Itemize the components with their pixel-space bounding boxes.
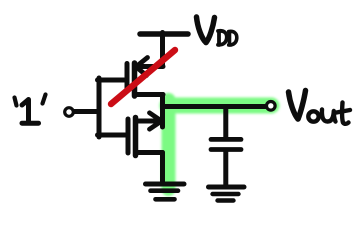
wire gate trunk [97,78,102,137]
crossed-out PMOS red slash [111,50,175,104]
wire source column to ground [160,153,165,183]
wire NMOS drain lead [136,119,157,124]
VDD rail bar [140,31,188,37]
wire VDD stem [160,33,165,65]
transistor Q1 PMOS source arrow [136,58,148,76]
transistor Q1 PMOS gate bar [125,64,130,92]
wire PMOS gate branch [98,78,126,83]
capacitor C1 bottom stem [223,151,228,186]
capacitor C1 top stem [223,107,228,139]
ground symbol GND1 (under NMOS) [146,184,185,199]
wire NMOS gate branch [98,133,127,138]
transistor Q2 NMOS drain arrow [150,113,162,129]
wire drain column [160,95,165,128]
highlighted output net (green) [168,100,272,189]
wire input lead [74,109,100,114]
transistor Q2 NMOS gate bar [126,119,131,153]
node Vout terminal circle [267,102,276,111]
wire NMOS source lead [136,150,163,155]
ground symbol GND2 (under capacitor) [209,187,245,201]
transistor Q2 NMOS channel bar [133,118,139,156]
label '1' input value [15,95,46,124]
wire PMOS drain lead [135,92,163,97]
wire PMOS source lead [135,64,163,69]
node input terminal circle [65,108,74,117]
label VDD [197,17,237,45]
capacitor C1 top plate [211,137,241,142]
label Vout [289,91,351,124]
wire output line [163,104,266,109]
capacitor C1 bottom plate [211,147,241,152]
transistor Q1 PMOS channel bar [132,63,138,96]
